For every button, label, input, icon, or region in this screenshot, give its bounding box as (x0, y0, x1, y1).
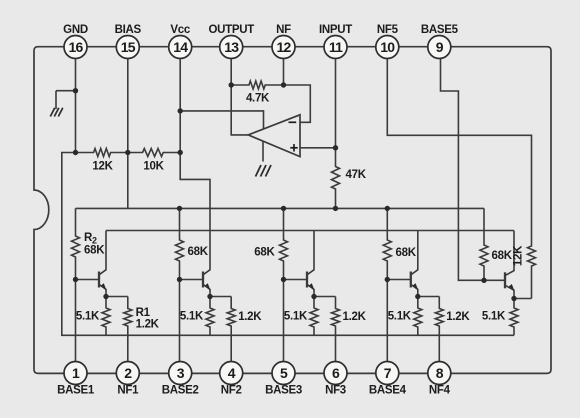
wire: pin12 NF down to feedback row (283, 47, 285, 85)
pin 7 (BASE4) (369, 362, 407, 397)
node: emitter of Q1 (103, 294, 108, 299)
resistor 68K (cell 4) (383, 208, 416, 279)
svg-text:6: 6 (332, 365, 340, 381)
pin 16 (GND) (63, 24, 88, 59)
pin 8 (NF4) (428, 362, 451, 397)
svg-text:5.1K: 5.1K (76, 311, 100, 323)
node: emitter of Q4 (415, 294, 420, 299)
svg-text:R1: R1 (136, 307, 151, 319)
svg-text:11: 11 (329, 39, 343, 55)
op-amp U1 (248, 115, 300, 157)
ground (chassis, near pin 16) (50, 108, 63, 117)
wire: pin14 Vcc down, jog right to collector bus B (180, 47, 210, 231)
resistor 5.1K (cell 4) (388, 297, 422, 336)
resistor 1.2K (cell 4) (435, 297, 470, 374)
svg-text:68K: 68K (396, 247, 417, 259)
svg-text:68K: 68K (188, 246, 209, 258)
svg-text:5.1K: 5.1K (388, 311, 412, 323)
node: GND / 12K (73, 150, 78, 155)
svg-text:4.7K: 4.7K (246, 93, 270, 105)
svg-text:BIAS: BIAS (115, 24, 142, 36)
pin 15 (BIAS) (115, 24, 142, 59)
svg-text:47K: 47K (346, 169, 367, 181)
wire: emitter node to 1.2K (cell 2) (210, 296, 231, 298)
node: GND branch (73, 88, 78, 93)
resistor 12K (cell 5, NF5) (513, 244, 536, 299)
resistor 5.1K (cell 5) (482, 299, 518, 336)
svg-text:68K: 68K (84, 245, 105, 257)
resistor 68K (cell 2) (176, 208, 209, 279)
node: BIAS / divider (125, 150, 130, 155)
svg-text:1.2K: 1.2K (136, 319, 160, 331)
wire: pin16 GND down to divider row (75, 47, 77, 153)
wire: op-amp ground stub (262, 141, 264, 161)
wire: base column to pin BASE2 (179, 280, 181, 374)
resistor 1.2K (cell 3) (332, 297, 367, 374)
pin 3 (BASE2) (162, 362, 199, 397)
wire: base column to pin BASE4 (386, 280, 388, 374)
pin 9 (BASE5) (421, 24, 459, 59)
svg-text:1.2K: 1.2K (343, 311, 367, 323)
wire: bias bus A (76, 207, 485, 209)
svg-text:GND: GND (63, 24, 88, 36)
node: OUTPUT / 4.7K (229, 82, 234, 87)
resistor 4.7K (feedback) (231, 81, 283, 105)
wire: Vcc feed to op-amp top (180, 111, 263, 129)
svg-text:14: 14 (173, 39, 188, 55)
resistor 5.1K (cell 3) (284, 297, 318, 336)
pin 4 (NF2) (220, 362, 243, 397)
svg-text:BASE1: BASE1 (57, 385, 95, 397)
svg-text:8: 8 (436, 365, 444, 381)
resistor 68K (cell 5) (480, 208, 513, 280)
wire: GND rail left side and bottom emitter bus (62, 153, 514, 336)
svg-text:2: 2 (124, 365, 132, 381)
node: emitter of Q2 (207, 294, 212, 299)
wire: base column to pin BASE1 (75, 280, 77, 374)
transistor Q5 (484, 231, 515, 299)
wire: op-amp non-inverting input (300, 147, 336, 149)
node: Vcc / op-amp feed (178, 108, 183, 113)
transistor Q4 (387, 231, 418, 297)
ground (op-amp) (256, 165, 272, 177)
svg-text:10K: 10K (143, 161, 164, 173)
svg-text:16: 16 (69, 39, 84, 55)
pin 5 (BASE3) (265, 362, 302, 397)
node: NF / 4.7K (281, 82, 286, 87)
transistor Q2 (180, 231, 211, 297)
svg-text:12: 12 (277, 39, 292, 55)
svg-text:NF4: NF4 (429, 385, 451, 397)
svg-text:Vcc: Vcc (170, 24, 190, 36)
resistor 5.1K (cell 2) (180, 297, 214, 336)
pin 12 (NF) (272, 24, 295, 59)
node: base of Q5 (481, 278, 486, 283)
svg-text:BASE3: BASE3 (265, 385, 302, 397)
wire: pin13 OUTPUT to op-amp output (231, 47, 248, 135)
wire: emitter node to 1.2K (cell 4) (418, 296, 440, 298)
pin 11 (INPUT) (319, 24, 352, 59)
wire: pin15 BIAS down to bias bus A (127, 47, 129, 208)
svg-text:BASE5: BASE5 (421, 24, 459, 36)
transistor Q1 (76, 231, 107, 297)
pin 1 (BASE1) (57, 362, 95, 397)
IC body outline with index notch (34, 47, 551, 374)
svg-text:1.2K: 1.2K (446, 311, 470, 323)
pin 10 (NF5) (376, 24, 399, 59)
node: emitter of Q3 (311, 294, 316, 299)
svg-text:1: 1 (72, 365, 80, 381)
pin 13 (OUTPUT) (208, 24, 254, 59)
svg-text:1.2K: 1.2K (238, 311, 262, 323)
node: base of Q2 (177, 277, 182, 282)
resistor 1.2K (cell 2) (227, 297, 262, 374)
wire: collector bus B (106, 230, 514, 232)
resistor R1 1.2K (cell 1) (124, 297, 160, 374)
node: 47K on bus A (333, 206, 338, 211)
resistor 47K (input bias) (332, 148, 367, 208)
wire: Q5 emitter to 12K (514, 298, 532, 300)
svg-text:5: 5 (280, 365, 288, 381)
svg-text:68K: 68K (254, 247, 275, 259)
node: base of Q1 (73, 277, 78, 282)
transistor Q3 (284, 231, 315, 297)
svg-text:INPUT: INPUT (319, 24, 352, 36)
node: emitter of Q5 (511, 296, 516, 301)
svg-text:5.1K: 5.1K (284, 311, 308, 323)
resistor 5.1K (cell 1) (76, 297, 110, 336)
wire: pin9 BASE5 jog down to Q5 base (441, 47, 485, 280)
svg-text:NF3: NF3 (325, 385, 346, 397)
svg-text:7: 7 (384, 365, 392, 381)
node: base of Q4 (385, 277, 390, 282)
svg-text:5.1K: 5.1K (180, 311, 204, 323)
svg-text:15: 15 (121, 39, 136, 55)
svg-text:10: 10 (380, 39, 395, 55)
node: INPUT / + input / 47K (333, 145, 338, 150)
wire: base column to pin BASE3 (283, 280, 285, 374)
svg-text:OUTPUT: OUTPUT (208, 24, 254, 36)
svg-text:BASE2: BASE2 (162, 385, 199, 397)
node: 68K top on bus A (cell 3) (281, 206, 286, 211)
wire: emitter node to 1.2K (cell 3) (314, 296, 336, 298)
svg-text:NF2: NF2 (221, 385, 242, 397)
svg-text:NF5: NF5 (377, 24, 399, 36)
wire: pin11 INPUT down (335, 47, 337, 148)
svg-text:NF: NF (276, 24, 291, 36)
svg-text:12K: 12K (513, 245, 525, 266)
pin 14 (Vcc) (169, 24, 192, 59)
resistor 12K (GND-BIAS) (76, 149, 128, 173)
wire: branch to chassis ground (56, 90, 76, 92)
resistor 68K (cell 3) (254, 208, 287, 279)
pin 6 (NF3) (324, 362, 347, 397)
wire: emitter node to 1.2K (cell 1) (106, 296, 128, 298)
wire: pin10 NF5 down and across to 12K (387, 47, 531, 244)
node: 68K top on bus A (cell 4) (385, 206, 390, 211)
svg-text:5.1K: 5.1K (482, 311, 506, 323)
svg-text:13: 13 (224, 39, 239, 55)
wire: feedback to op-amp inverting input (284, 85, 311, 122)
resistor 10K (BIAS-Vcc) (128, 149, 180, 173)
svg-text:NF1: NF1 (117, 385, 139, 397)
node: Vcc / 10K (178, 150, 183, 155)
node: base of Q3 (281, 277, 286, 282)
svg-text:3: 3 (177, 365, 185, 381)
svg-text:12K: 12K (92, 161, 113, 173)
svg-text:9: 9 (436, 39, 444, 55)
svg-text:BASE4: BASE4 (369, 385, 407, 397)
svg-text:4: 4 (228, 365, 236, 381)
svg-text:68K: 68K (492, 250, 513, 262)
wire: ground stub down (55, 91, 57, 109)
resistor R2 68K (cell 1) (72, 208, 106, 279)
node: 68K top on bus A (cell 2) (177, 206, 182, 211)
pin 2 (NF1) (116, 362, 139, 397)
